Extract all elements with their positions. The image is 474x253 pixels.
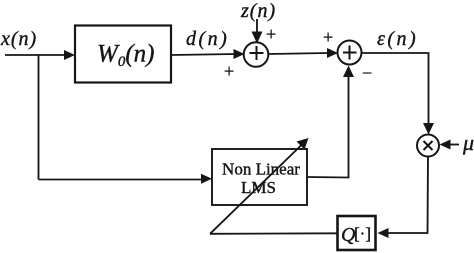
svg-text:d(n): d(n) [186,28,229,50]
svg-text:μ: μ [462,130,474,155]
svg-text:W0(n): W0(n) [97,41,154,71]
svg-text:ε(n): ε(n) [377,28,418,50]
svg-text:+: + [266,24,276,44]
svg-text:Non Linear: Non Linear [222,160,300,179]
svg-text:+: + [323,27,333,47]
svg-text:z(n): z(n) [240,0,276,22]
svg-text:LMS: LMS [241,178,276,197]
svg-text:+: + [224,61,234,81]
svg-text:x(n): x(n) [0,28,37,50]
svg-text:[·]: [·] [354,224,371,243]
svg-text:−: − [362,63,372,83]
